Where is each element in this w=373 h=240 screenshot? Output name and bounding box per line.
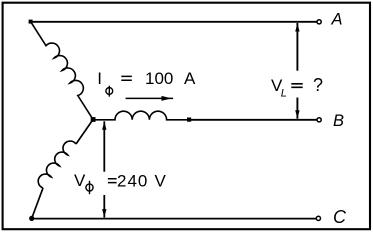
inductor winding 3 (middle phase winding) [93,111,187,120]
svg-text:100: 100 [145,69,173,88]
value label V_L = ? [271,75,323,100]
inductor winding 1 (upper-left phase winding) [31,16,102,119]
value label V_phi = 240 V [74,171,167,194]
svg-text:V: V [155,172,167,191]
svg-text:C: C [333,207,347,227]
inductor winding 2 (lower-left phase winding) [32,120,93,219]
svg-text:I: I [97,69,102,88]
dimension arrow V_L (between line A and line B) [295,23,299,119]
terminal A [317,20,321,24]
wire phase B line [191,119,317,121]
value label I_phi = 100 A [97,69,196,97]
current arrow I_phi [126,96,173,101]
node N1 (phase A corner junction) [29,20,33,24]
node N2 (center junction) [91,117,96,122]
wire phase C line [33,218,316,220]
node N4 (phase C corner junction) [29,216,34,221]
terminal B [317,118,321,122]
svg-text:L: L [281,88,287,100]
svg-text:?: ? [313,75,323,95]
dimension arrow V_phi (between center node and line C) [102,121,106,217]
wire phase A line [32,21,317,23]
svg-text:B: B [333,112,344,130]
svg-text:V: V [74,171,86,190]
terminal C [316,216,320,220]
svg-text:A: A [331,11,343,29]
svg-text:240: 240 [117,172,148,191]
svg-text:A: A [184,69,196,88]
node N3 (winding 3 output junction) [187,118,191,122]
